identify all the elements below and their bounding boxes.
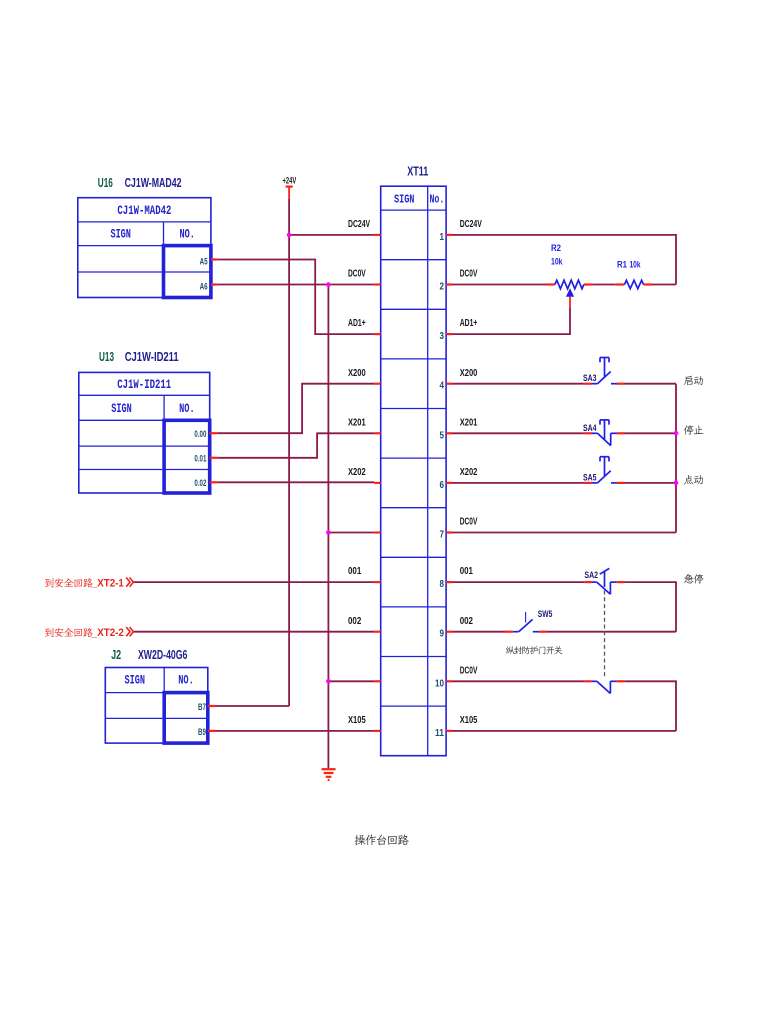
U16 table row line A5/A6 — [78, 271, 211, 273]
wire +24V rail vertical — [288, 199, 290, 706]
U16 table outline — [78, 198, 211, 298]
svg-text:U16: U16 — [98, 176, 113, 190]
svg-text:DC0V: DC0V — [460, 269, 478, 280]
svg-text:SA5: SA5 — [583, 472, 597, 482]
XT11 row separator 10 — [381, 705, 446, 707]
potentiometer R2 wiper arrow — [566, 288, 574, 297]
svg-text:CJ1W-ID211: CJ1W-ID211 — [125, 350, 179, 364]
wire DC24V rail to XT11-1 — [289, 234, 374, 236]
svg-text:B9: B9 — [198, 727, 206, 738]
svg-text:DC24V: DC24V — [348, 219, 370, 230]
svg-text:SIGN: SIGN — [394, 192, 415, 206]
J2 row line B7/B9 — [105, 717, 208, 719]
svg-text:No.: No. — [430, 192, 445, 206]
wire X105 XT11-11 to right bus — [453, 730, 677, 732]
svg-text:SW5: SW5 — [538, 609, 553, 619]
wire X202 U13 0.02 to XT11-6 — [217, 481, 374, 483]
junction DC0V bus / XT11-7 — [326, 530, 331, 535]
wire X202 XT11-6 to SA5 — [453, 482, 584, 484]
svg-text:10k: 10k — [551, 256, 563, 266]
off-sheet label to safety circuit XT2-2 — [45, 628, 54, 637]
U13 row line 0.00/0.01 — [79, 445, 210, 447]
svg-text:002: 002 — [460, 616, 474, 627]
svg-text:X200: X200 — [348, 368, 366, 379]
label door switch description — [506, 646, 515, 654]
svg-text:_XT2-2: _XT2-2 — [91, 627, 124, 639]
wire DC0V A6 to XT11-2 — [217, 284, 374, 286]
junction DC0V bus / XT11-10 — [326, 679, 331, 684]
SA2 mechanical link dashed — [604, 591, 606, 678]
wire 001 XT11-8 to SA2 — [453, 581, 585, 583]
U13 table column divider — [163, 395, 165, 493]
wire X200 XT11-4 to U13 0.00 — [217, 384, 374, 434]
wire B7 to +24V rail — [216, 705, 290, 707]
wire DC0V XT11-7 to right bus — [453, 532, 677, 534]
U16 table header row line — [78, 245, 211, 247]
label tingzhi (stop) — [684, 425, 694, 435]
wire DC0V bus to XT11-10 — [328, 680, 374, 682]
potentiometer R2 zigzag — [555, 280, 584, 289]
svg-text:SIGN: SIGN — [110, 226, 131, 241]
svg-text:5: 5 — [440, 430, 445, 441]
red connection stubs — [208, 235, 653, 731]
svg-text:X105: X105 — [460, 715, 478, 726]
red stub R2 wiper — [569, 297, 571, 308]
J2 table column divider — [163, 668, 165, 744]
svg-text:2: 2 — [440, 282, 445, 293]
svg-text:A5: A5 — [200, 256, 208, 267]
wire SA2 second pole to X105 bus — [624, 681, 676, 731]
chevron XT2-2 — [126, 627, 133, 636]
wire DC24V XT11-1 to right bus — [453, 235, 677, 285]
wire 002 from XT2-2 to XT11-9 — [133, 631, 374, 633]
svg-text:R1: R1 — [617, 259, 627, 269]
XT11 row separator 1 — [381, 259, 446, 261]
svg-text:+24V: +24V — [283, 176, 297, 187]
svg-text:CJ1W-MAD42: CJ1W-MAD42 — [125, 176, 182, 190]
SA2 actuator stem — [604, 571, 606, 587]
resistor R1 zigzag — [625, 280, 644, 288]
XT11 row separator 9 — [381, 656, 446, 658]
wire SA2 to emergency bus — [624, 582, 676, 632]
XT11 row separator 8 — [381, 606, 446, 608]
wire DC0V XT11-2 to R2 — [453, 284, 547, 286]
off-sheet label to safety circuit XT2-1 — [45, 578, 54, 587]
U13 table header row line — [79, 419, 210, 421]
svg-text:X201: X201 — [460, 417, 478, 428]
svg-text:10: 10 — [435, 678, 444, 689]
svg-text:NO.: NO. — [179, 401, 195, 416]
svg-text:1: 1 — [440, 232, 445, 243]
svg-text:XT11: XT11 — [407, 164, 428, 178]
J2 table outline — [105, 668, 208, 744]
svg-text:SIGN: SIGN — [125, 673, 146, 688]
wire DC0V bus to XT11-7 — [328, 532, 374, 534]
svg-text:J2: J2 — [111, 648, 121, 662]
svg-text:4: 4 — [440, 381, 445, 392]
svg-text:NO.: NO. — [179, 226, 195, 241]
chevron XT2-1 — [126, 578, 133, 587]
svg-text:X200: X200 — [460, 368, 478, 379]
svg-text:X202: X202 — [460, 467, 478, 478]
U16 table title row line — [78, 221, 211, 223]
J2 highlight border NO. cells — [164, 693, 208, 744]
wire R2 to R1 — [593, 284, 616, 286]
U13 table title row line — [79, 394, 210, 396]
svg-text:X105: X105 — [348, 715, 366, 726]
wire R1 to right bus — [653, 284, 677, 286]
XT11 row separator 2 — [381, 308, 446, 310]
svg-text:6: 6 — [440, 480, 445, 491]
svg-text:A6: A6 — [200, 281, 208, 292]
XT11 column divider — [427, 186, 429, 756]
svg-text:8: 8 — [440, 579, 445, 590]
svg-text:0.01: 0.01 — [194, 454, 206, 464]
caption operator console circuit — [355, 835, 366, 845]
XT11 row separator 3 — [381, 358, 446, 360]
wire SW5 to emergency bus — [547, 631, 676, 633]
wire DC0V XT11-10 to SA2 second pole — [453, 680, 585, 682]
U13 table outline — [79, 372, 210, 493]
svg-text:10k: 10k — [630, 259, 642, 269]
svg-text:SA4: SA4 — [583, 423, 597, 433]
U13 row line 0.01/0.02 — [79, 469, 210, 471]
junction right bus / SA5 — [674, 481, 679, 486]
ground symbol bar 1 — [322, 768, 336, 770]
junction DC0V bus / XT11-2 — [326, 282, 331, 287]
junction right bus / SA4 — [674, 431, 679, 436]
svg-text:X202: X202 — [348, 467, 366, 478]
wire 002 XT11-9 to SW5 — [453, 631, 506, 633]
label diandong (jog) — [684, 475, 693, 484]
XT11 row separator 6 — [381, 507, 446, 509]
J2 header row line — [105, 692, 208, 694]
power symbol +24V stem — [288, 187, 290, 199]
pushbutton SA3 (start, NO) — [591, 383, 597, 385]
svg-text:SIGN: SIGN — [111, 401, 132, 416]
svg-text:11: 11 — [435, 728, 444, 739]
svg-text:SA2: SA2 — [585, 570, 599, 580]
U16 table column divider — [163, 222, 165, 298]
svg-text:CJ1W-ID211: CJ1W-ID211 — [117, 377, 171, 392]
XT11 row separator 4 — [381, 408, 446, 410]
svg-text:DC0V: DC0V — [460, 517, 478, 528]
wire SA4 to right bus — [625, 432, 677, 434]
door switch SW5 — [513, 631, 519, 633]
svg-text:DC0V: DC0V — [348, 269, 366, 280]
svg-text:DC0V: DC0V — [460, 665, 478, 676]
wire X200 XT11-4 to SA3 — [453, 383, 584, 385]
wire 001 from XT2-1 to XT11-8 — [133, 581, 374, 583]
wire AD1+ A5 to XT11-3 — [217, 260, 374, 335]
XT11 row separator 7 — [381, 556, 446, 558]
svg-text:X201: X201 — [348, 417, 366, 428]
wire AD1+ XT11-3 to R2 wiper — [453, 307, 571, 334]
svg-text:001: 001 — [348, 566, 362, 577]
svg-text:B7: B7 — [198, 702, 206, 713]
svg-text:9: 9 — [440, 629, 445, 640]
svg-text:3: 3 — [440, 331, 445, 342]
svg-text:002: 002 — [348, 616, 362, 627]
wire SA5 to right bus — [625, 482, 677, 484]
ground symbol bar 2 — [324, 772, 334, 774]
svg-text:_XT2-1: _XT2-1 — [91, 577, 124, 589]
svg-text:AD1+: AD1+ — [348, 318, 366, 329]
pushbutton SA5 (jog, NO) — [591, 482, 597, 484]
XT11 row separator 5 — [381, 457, 446, 459]
wire X201 XT11-5 to SA4 — [453, 432, 584, 434]
ground symbol stem — [327, 731, 329, 768]
SA2 actuator head — [600, 568, 610, 574]
U16 highlight border NO. cells — [164, 246, 211, 298]
wire SA3 to right bus — [625, 383, 677, 385]
wire X105 B9 to XT11-11 — [216, 730, 375, 732]
ground symbol bar 4 — [328, 779, 330, 781]
svg-text:001: 001 — [460, 566, 474, 577]
junction +24V rail / DC24V — [287, 233, 292, 238]
svg-text:CJ1W-MAD42: CJ1W-MAD42 — [117, 203, 171, 218]
svg-text:AD1+: AD1+ — [460, 318, 478, 329]
svg-text:DC24V: DC24V — [460, 219, 482, 230]
svg-text:XW2D-40G6: XW2D-40G6 — [138, 648, 187, 662]
svg-text:0.00: 0.00 — [194, 429, 206, 439]
svg-text:SA3: SA3 — [583, 373, 597, 383]
terminal block XT11 outline — [381, 186, 446, 756]
svg-text:U13: U13 — [99, 350, 114, 364]
svg-text:NO.: NO. — [178, 673, 194, 688]
U13 highlight border NO. cells — [164, 420, 210, 493]
emergency stop SA2 pole 1 (NC) — [591, 581, 597, 583]
power symbol +24V bar — [286, 186, 293, 188]
wire right bus SA3-SA5 vertical — [675, 384, 677, 533]
pushbutton SA4 (stop, NC) — [591, 432, 597, 434]
svg-text:0.02: 0.02 — [194, 478, 206, 488]
svg-text:R2: R2 — [551, 243, 561, 253]
emergency stop SA2 pole 2 (NC) — [591, 680, 597, 682]
label qidong (start) — [684, 376, 693, 386]
wire X201 XT11-5 to U13 0.01 — [217, 433, 374, 458]
svg-text:7: 7 — [440, 530, 445, 541]
XT11 header separator — [381, 209, 446, 211]
label jiting (emergency stop) — [684, 574, 693, 584]
wire DC0V bus vertical — [327, 285, 329, 731]
ground symbol bar 3 — [326, 776, 332, 778]
